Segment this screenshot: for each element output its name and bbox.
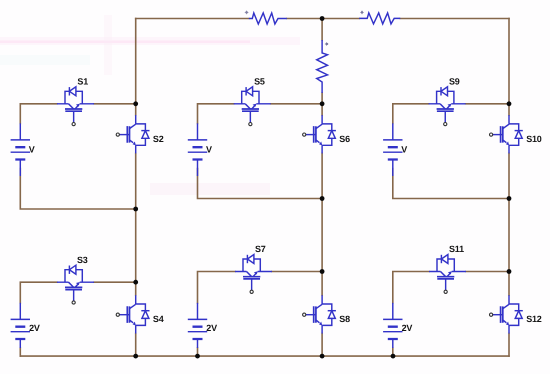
svg-text:2V: 2V xyxy=(402,323,413,333)
svg-text:S3: S3 xyxy=(77,255,88,265)
svg-text:V: V xyxy=(206,145,212,155)
svg-text:2V: 2V xyxy=(29,323,40,333)
svg-text:S4: S4 xyxy=(153,314,164,324)
svg-text:2V: 2V xyxy=(206,323,217,333)
svg-text:S7: S7 xyxy=(255,244,266,254)
svg-text:S12: S12 xyxy=(526,314,542,324)
svg-text:S2: S2 xyxy=(153,134,164,144)
svg-text:S9: S9 xyxy=(449,76,460,86)
svg-text:S8: S8 xyxy=(339,314,350,324)
svg-text:S5: S5 xyxy=(254,76,265,86)
svg-text:V: V xyxy=(401,145,407,155)
svg-text:S1: S1 xyxy=(77,76,88,86)
svg-text:S6: S6 xyxy=(339,134,350,144)
svg-text:V: V xyxy=(29,145,35,155)
svg-text:S10: S10 xyxy=(526,134,542,144)
svg-text:S11: S11 xyxy=(449,244,464,254)
